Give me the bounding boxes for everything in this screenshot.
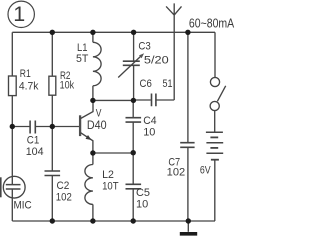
- wire left rail below R1: [11, 96, 13, 178]
- resistor R2: [49, 76, 56, 95]
- wire top rail: [12, 31, 215, 33]
- capacitor C7 with wires: [187, 32, 189, 142]
- wire R2 top: [51, 32, 53, 76]
- node top R2: [50, 30, 55, 35]
- wire base node down to C2: [51, 127, 53, 172]
- svg-text:C4: C4: [143, 115, 156, 127]
- svg-text:10: 10: [143, 127, 155, 139]
- svg-text:104: 104: [26, 146, 44, 158]
- node C3/C4/C6: [131, 98, 136, 103]
- wire left rail below MIC: [11, 197, 13, 221]
- node top C3: [131, 30, 136, 35]
- variable capacitor C3: [123, 61, 140, 65]
- node left C1: [10, 124, 15, 129]
- svg-text:C5: C5: [136, 187, 150, 199]
- circle badge 1: [8, 1, 34, 27]
- svg-text:D40: D40: [87, 118, 107, 132]
- wire R2 to base node: [51, 95, 53, 126]
- node collector: [90, 98, 95, 103]
- wire base: [52, 126, 79, 128]
- svg-text:C6: C6: [140, 78, 152, 90]
- svg-text:L2: L2: [102, 169, 114, 181]
- capacitor C4 with wires: [132, 100, 134, 117]
- node emitter: [90, 150, 95, 155]
- node bottom C2: [50, 218, 55, 223]
- wire left rail upper (to R1): [11, 32, 13, 76]
- wire collector node to C3/C4 node: [93, 99, 134, 101]
- svg-text:4.7k: 4.7k: [19, 81, 39, 93]
- svg-text:C2: C2: [57, 180, 70, 192]
- wire left node to C1: [12, 126, 29, 128]
- svg-text:60~80mA: 60~80mA: [189, 16, 234, 31]
- wire battery to bottom rail: [214, 160, 216, 221]
- svg-text:1: 1: [13, 2, 25, 26]
- wire right descent to switch: [214, 32, 216, 77]
- transistor emitter arrow: [86, 135, 92, 140]
- svg-text:10T: 10T: [102, 181, 119, 193]
- wire C3 top: [133, 32, 135, 61]
- wire C3 bottom to node: [133, 65, 135, 100]
- svg-text:MIC: MIC: [14, 199, 32, 211]
- transistor emitter: [80, 133, 93, 153]
- svg-text:102: 102: [56, 192, 72, 204]
- svg-text:R1: R1: [20, 68, 31, 80]
- svg-text:5T: 5T: [76, 53, 89, 65]
- node bottom C5: [131, 218, 136, 223]
- svg-text:102: 102: [167, 167, 186, 179]
- wire node to C6: [134, 99, 151, 101]
- transistor V D40 base bar: [79, 115, 81, 136]
- svg-text:5/20: 5/20: [144, 55, 169, 67]
- capacitor C2: [45, 171, 61, 176]
- ground: [187, 221, 189, 232]
- node C4/C5: [131, 150, 136, 155]
- svg-text:C3: C3: [138, 41, 150, 53]
- wire C1 to base node: [36, 126, 52, 128]
- capacitor C6: [152, 94, 156, 107]
- resistor R1: [9, 76, 17, 96]
- battery GB 6V: [206, 131, 223, 133]
- wire C2 to bottom rail: [51, 176, 53, 222]
- capacitor C5 with wires: [132, 153, 134, 185]
- microphone MIC: [3, 176, 25, 198]
- wire switch to battery: [214, 111, 216, 132]
- node bottom ground: [186, 218, 191, 223]
- wire bottom rail: [12, 220, 215, 222]
- svg-text:6V: 6V: [200, 165, 211, 177]
- svg-text:10: 10: [136, 199, 148, 211]
- capacitor C1: [30, 121, 35, 134]
- node base: [50, 124, 55, 129]
- wire C6 to antenna column: [157, 99, 175, 101]
- svg-text:51: 51: [163, 78, 173, 90]
- inductor L2: [92, 153, 94, 165]
- antenna: [166, 3, 181, 100]
- node bottom L2: [90, 218, 95, 223]
- inductor L1: [92, 32, 94, 42]
- switch S: [210, 77, 219, 86]
- node top C7: [185, 30, 190, 35]
- node top L1: [90, 30, 95, 35]
- left edge fragment: [0, 177, 2, 197]
- svg-text:10k: 10k: [60, 79, 75, 91]
- svg-text:C1: C1: [27, 135, 40, 147]
- wire emitter row: [93, 152, 133, 154]
- transistor collector: [80, 100, 93, 118]
